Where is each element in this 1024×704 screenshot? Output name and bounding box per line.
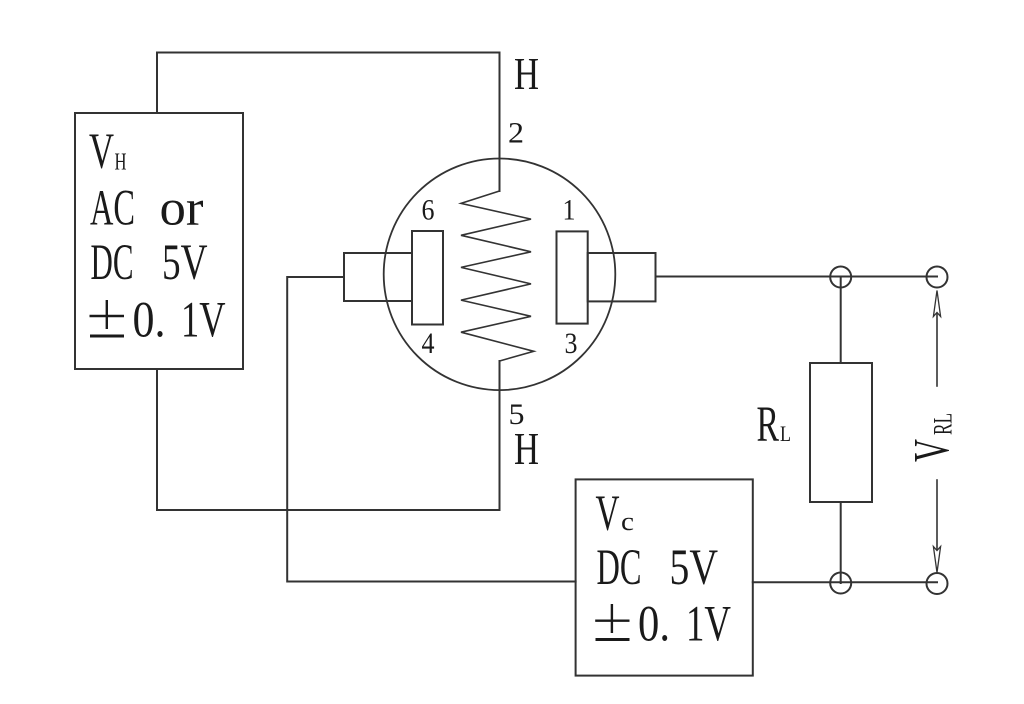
wire right electrode to output top rail	[656, 276, 938, 278]
wire VH top to pin 2 (heater H supply)	[157, 53, 500, 192]
svg-text:H: H	[115, 150, 127, 176]
svg-text:RL: RL	[929, 413, 958, 435]
svg-text:3: 3	[565, 327, 578, 360]
VRL arrowhead up	[933, 291, 940, 317]
svg-text:DC: DC	[597, 540, 642, 596]
svg-text:2: 2	[508, 117, 524, 150]
wire left electrode to VC	[287, 277, 575, 582]
svg-text:R: R	[757, 397, 780, 453]
svg-text:0.: 0.	[638, 597, 670, 653]
svg-text:V: V	[89, 124, 114, 180]
svg-text:H: H	[514, 48, 539, 99]
svg-text:c: c	[621, 507, 634, 536]
label VRL rotated	[905, 413, 961, 462]
VRL dimension shaft lower	[936, 480, 938, 549]
box VH source	[75, 113, 243, 369]
node terminal circle bottom left	[830, 573, 851, 594]
svg-text:1: 1	[563, 194, 576, 227]
svg-text:or: or	[160, 181, 204, 237]
svg-text:DC: DC	[91, 235, 134, 291]
right electrode plate (pins 1/3)	[557, 231, 588, 323]
left electrode tab	[344, 253, 412, 301]
node terminal circle top left	[830, 267, 851, 288]
svg-text:5V: 5V	[162, 235, 208, 291]
svg-text:V: V	[596, 486, 620, 542]
svg-text:AC: AC	[90, 181, 135, 237]
wire VC to output bottom rail	[753, 581, 937, 583]
node terminal circle top right	[927, 267, 948, 288]
left electrode plate (pins 6/4)	[412, 231, 443, 325]
box VC source	[576, 479, 753, 675]
svg-text:L: L	[780, 421, 791, 446]
svg-text:H: H	[514, 423, 539, 474]
heater coil zigzag	[461, 191, 534, 361]
VRL arrowhead down	[933, 547, 940, 573]
resistor RL body	[810, 363, 872, 502]
node terminal circle bottom right	[927, 573, 948, 594]
wire VH bottom to pin 5	[157, 361, 500, 510]
wire RL bottom to node	[840, 502, 842, 583]
text VC plus-minus sign	[595, 604, 629, 640]
svg-text:5V: 5V	[670, 540, 719, 596]
text VH plus-minus sign	[90, 300, 125, 336]
svg-text:4: 4	[422, 327, 435, 360]
svg-text:V: V	[905, 439, 961, 462]
right electrode tab	[588, 253, 656, 301]
sensor envelope circle	[384, 158, 616, 390]
svg-text:6: 6	[422, 194, 435, 227]
VRL dimension shaft upper	[936, 314, 938, 386]
svg-text:1V: 1V	[181, 293, 226, 349]
svg-text:1V: 1V	[686, 597, 731, 653]
svg-text:0.: 0.	[133, 293, 166, 349]
wire node to RL top	[840, 277, 842, 363]
